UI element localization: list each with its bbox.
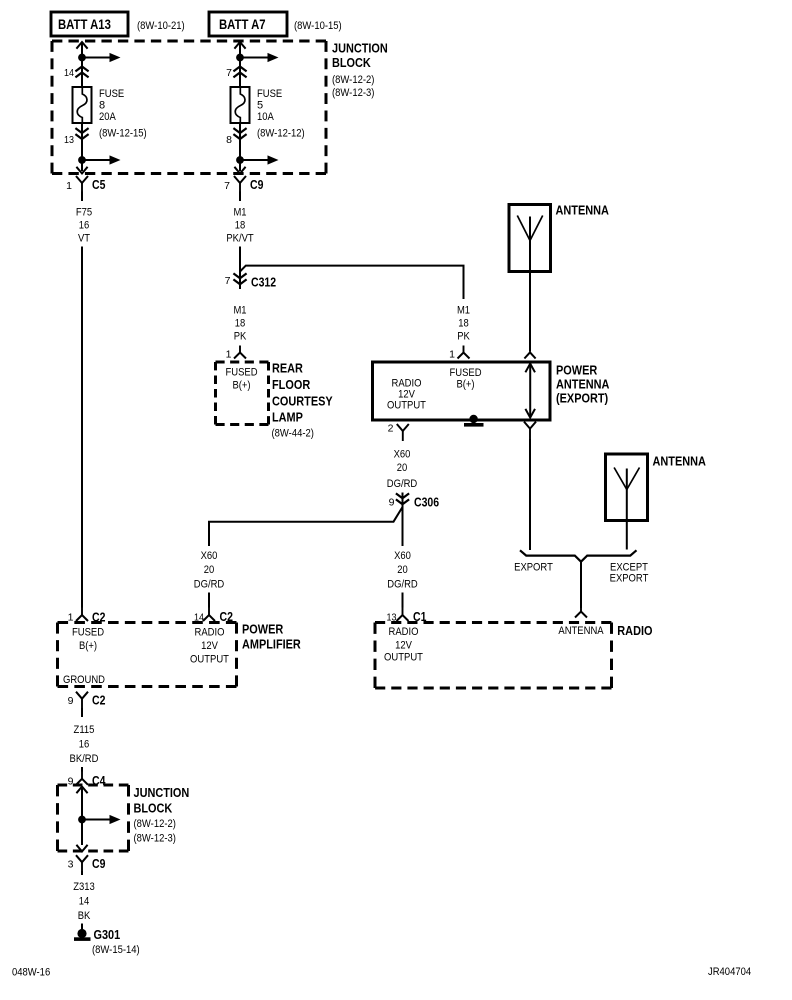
svg-text:M1: M1 (233, 305, 246, 317)
svg-text:16: 16 (79, 739, 90, 751)
svg-text:16: 16 (79, 220, 90, 232)
svg-text:RADIO: RADIO (389, 626, 419, 638)
svg-text:F75: F75 (76, 207, 92, 219)
svg-text:FUSED: FUSED (72, 627, 104, 639)
svg-text:COURTESY: COURTESY (272, 393, 333, 408)
svg-text:FLOOR: FLOOR (272, 377, 311, 392)
svg-text:M1: M1 (457, 305, 470, 317)
svg-text:BK/RD: BK/RD (70, 753, 99, 765)
svg-text:ANTENNA: ANTENNA (653, 454, 707, 469)
svg-text:C2: C2 (92, 693, 105, 707)
svg-text:FUSED: FUSED (225, 367, 257, 379)
svg-text:AMPLIFIER: AMPLIFIER (242, 637, 301, 652)
svg-text:M1: M1 (233, 207, 246, 219)
svg-text:PK/VT: PK/VT (226, 233, 254, 245)
svg-text:BLOCK: BLOCK (134, 801, 173, 816)
svg-text:DG/RD: DG/RD (387, 579, 418, 591)
svg-text:1: 1 (66, 180, 72, 192)
svg-text:EXCEPT: EXCEPT (610, 561, 648, 573)
svg-text:JUNCTION: JUNCTION (332, 40, 388, 55)
svg-text:OUTPUT: OUTPUT (190, 654, 229, 666)
svg-text:(8W-44-2): (8W-44-2) (272, 428, 314, 440)
svg-text:BK: BK (78, 910, 91, 922)
svg-text:(8W-12-2): (8W-12-2) (134, 818, 176, 830)
svg-text:7: 7 (224, 180, 230, 192)
svg-text:12V: 12V (201, 640, 218, 652)
svg-text:FUSE: FUSE (99, 88, 124, 100)
svg-text:7: 7 (225, 275, 231, 287)
svg-text:(8W-15-14): (8W-15-14) (92, 944, 140, 956)
svg-text:EXPORT: EXPORT (514, 561, 553, 573)
svg-text:X60: X60 (201, 550, 218, 562)
svg-text:DG/RD: DG/RD (387, 478, 418, 490)
svg-text:(8W-10-15): (8W-10-15) (294, 20, 342, 32)
svg-text:DG/RD: DG/RD (194, 579, 225, 591)
svg-text:10A: 10A (257, 111, 274, 123)
svg-text:BLOCK: BLOCK (332, 55, 371, 70)
svg-text:(8W-12-3): (8W-12-3) (332, 87, 374, 99)
svg-text:JUNCTION: JUNCTION (134, 785, 190, 800)
svg-text:BATT A13: BATT A13 (58, 17, 111, 32)
svg-text:FUSED: FUSED (449, 367, 481, 379)
svg-text:OUTPUT: OUTPUT (387, 400, 426, 412)
svg-text:14: 14 (79, 896, 90, 908)
svg-text:RADIO: RADIO (195, 627, 225, 639)
svg-text:18: 18 (235, 318, 246, 330)
svg-text:ANTENNA: ANTENNA (556, 203, 610, 218)
svg-text:20: 20 (397, 564, 408, 576)
svg-text:B(+): B(+) (232, 380, 250, 392)
svg-text:9: 9 (389, 497, 395, 509)
svg-text:Z313: Z313 (73, 881, 95, 893)
svg-text:20A: 20A (99, 111, 116, 123)
svg-text:048W-16: 048W-16 (12, 966, 50, 978)
svg-text:FUSE: FUSE (257, 88, 282, 100)
svg-text:2: 2 (388, 422, 394, 434)
svg-text:POWER: POWER (556, 362, 598, 377)
svg-text:REAR: REAR (272, 361, 303, 376)
svg-text:POWER: POWER (242, 622, 284, 637)
svg-text:G301: G301 (94, 927, 121, 942)
svg-text:PK: PK (234, 331, 247, 343)
svg-text:C306: C306 (414, 496, 439, 510)
svg-text:3: 3 (68, 858, 74, 870)
svg-text:OUTPUT: OUTPUT (384, 652, 423, 664)
svg-text:RADIO: RADIO (617, 623, 652, 638)
svg-text:14: 14 (64, 67, 74, 79)
svg-text:C9: C9 (250, 178, 263, 192)
svg-text:7: 7 (226, 67, 232, 79)
svg-text:LAMP: LAMP (272, 410, 303, 425)
svg-text:B(+): B(+) (79, 640, 97, 652)
svg-text:BATT A7: BATT A7 (219, 17, 266, 32)
svg-text:(8W-12-15): (8W-12-15) (99, 127, 147, 139)
svg-text:(8W-10-21): (8W-10-21) (137, 20, 185, 32)
svg-text:12V: 12V (395, 640, 412, 652)
svg-text:PK: PK (457, 331, 470, 343)
svg-text:(8W-12-12): (8W-12-12) (257, 127, 305, 139)
svg-text:8: 8 (99, 99, 105, 111)
svg-text:9: 9 (68, 695, 74, 707)
svg-text:Z115: Z115 (74, 724, 95, 736)
svg-text:9: 9 (68, 775, 74, 787)
svg-text:(EXPORT): (EXPORT) (556, 391, 608, 406)
svg-text:X60: X60 (394, 550, 411, 562)
svg-text:18: 18 (235, 220, 246, 232)
svg-text:ANTENNA: ANTENNA (558, 625, 604, 637)
svg-text:C5: C5 (92, 178, 105, 192)
svg-text:8: 8 (226, 134, 232, 146)
svg-text:C9: C9 (92, 857, 105, 871)
svg-text:EXPORT: EXPORT (610, 573, 649, 585)
svg-text:X60: X60 (394, 448, 411, 460)
svg-text:1: 1 (226, 349, 232, 361)
svg-text:C312: C312 (251, 276, 276, 290)
svg-text:ANTENNA: ANTENNA (556, 376, 610, 391)
svg-text:13: 13 (64, 134, 74, 146)
svg-text:20: 20 (397, 462, 408, 474)
svg-text:1: 1 (68, 612, 74, 624)
svg-text:B(+): B(+) (456, 379, 474, 391)
svg-text:5: 5 (257, 99, 263, 111)
svg-text:JR404704: JR404704 (708, 966, 751, 978)
svg-text:18: 18 (458, 318, 469, 330)
svg-text:(8W-12-2): (8W-12-2) (332, 74, 374, 86)
svg-text:(8W-12-3): (8W-12-3) (134, 833, 176, 845)
svg-text:GROUND: GROUND (63, 674, 105, 686)
svg-text:VT: VT (78, 233, 90, 245)
svg-text:20: 20 (204, 564, 215, 576)
svg-text:1: 1 (449, 349, 455, 361)
